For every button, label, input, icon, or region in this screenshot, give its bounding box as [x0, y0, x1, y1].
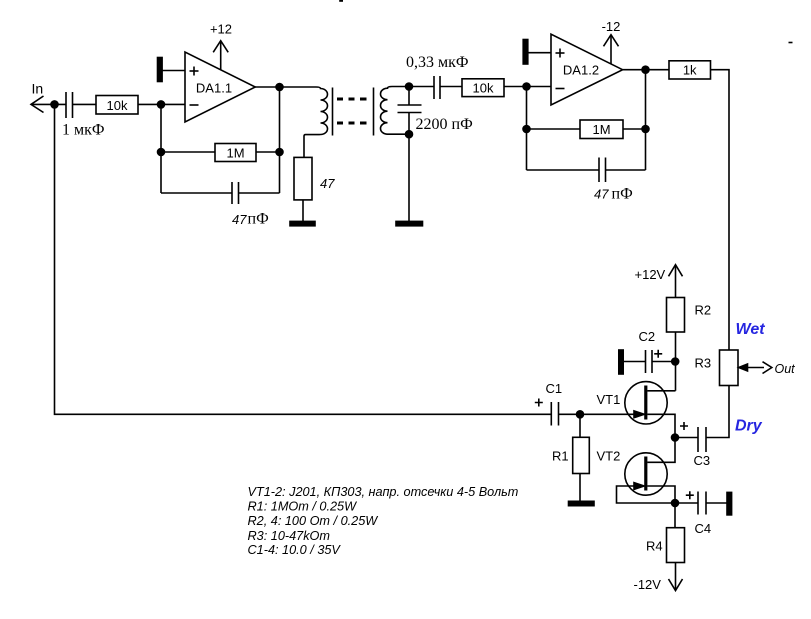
wire to 1M	[161, 151, 215, 153]
transformer T1 primary winding	[304, 87, 328, 157]
capacitor 0,33uF plates	[433, 76, 435, 99]
wire junction to C4	[675, 502, 698, 504]
stray dash mark top right	[789, 42, 793, 44]
transformer core dashes top row	[337, 98, 367, 101]
resistor 10k (input)	[96, 96, 138, 115]
svg-text:C3: C3	[694, 453, 711, 468]
svg-text:-12V: -12V	[634, 577, 662, 592]
resistor 1M (DA1.1 feedback)	[215, 144, 256, 162]
node 1M2 right dot	[642, 126, 649, 133]
resistor R3 potentiometer	[720, 350, 739, 386]
node junction at inverting input	[158, 101, 165, 108]
wire cap to 10k (second)	[440, 86, 462, 88]
svg-text:In: In	[32, 81, 44, 97]
wire secondary bottom to ground	[408, 134, 410, 221]
svg-text:+12V: +12V	[635, 267, 666, 282]
power +12 arrow	[220, 42, 222, 70]
power -12V arrow	[675, 563, 677, 590]
transistor VT1	[625, 382, 667, 424]
capacitor 47pF (DA1.2) plates	[598, 158, 600, 183]
resistor 1M (DA1.2 feedback)	[580, 120, 623, 139]
ground under R1	[569, 501, 595, 505]
node input junction dot	[51, 101, 58, 108]
polarity + of C1	[535, 399, 543, 407]
wire left rail In to C1	[55, 104, 552, 414]
node DA1.2 output dot	[642, 66, 649, 73]
wire feedback left rail DA1.1	[160, 104, 162, 193]
svg-text:R3: 10-47kOm: R3: 10-47kOm	[248, 529, 331, 543]
svg-text:47: 47	[320, 176, 335, 191]
wire 1M to right rail (DA1.2)	[623, 128, 646, 130]
VT1 drain wire	[647, 390, 675, 392]
resistor R1	[573, 437, 590, 473]
capacitor 1uF input plates	[65, 92, 67, 118]
stray mark top edge	[339, 0, 343, 2]
wire 10k to DA1.2 inverting input	[504, 86, 551, 88]
wire feedback left rail DA1.2	[526, 87, 528, 171]
svg-text:1M: 1M	[226, 146, 244, 161]
node secondary bottom dot	[406, 131, 413, 138]
wire ground to DA1.2 + input	[528, 52, 552, 54]
svg-text:-12: -12	[602, 19, 621, 34]
resistor R2	[667, 298, 685, 333]
VT2 gate loop wire	[617, 486, 676, 503]
wire 10k to DA1.1 inverting input	[138, 103, 185, 105]
resistor 1k	[669, 61, 711, 79]
wire secondary vertical (2200pF branch)	[408, 87, 410, 106]
ground bar at C2	[619, 350, 623, 374]
R3 wiper arrow to Out	[739, 364, 748, 371]
wire 47 to ground	[302, 200, 304, 222]
wire C4 to ground bar	[706, 502, 727, 504]
wire ground to + input	[162, 70, 185, 72]
capacitor 2200pF plates	[398, 104, 422, 106]
svg-text:Dry: Dry	[735, 418, 763, 435]
wire feedback bottom right segment	[239, 192, 280, 194]
svg-text:0,33 мкФ: 0,33 мкФ	[406, 54, 469, 71]
svg-text:пФ: пФ	[248, 211, 269, 228]
ground under secondary	[396, 221, 423, 225]
node C3 junction dot	[672, 434, 679, 441]
wire feedback bottom left segment DA1.2	[527, 169, 600, 171]
capacitor C1 plates	[550, 402, 552, 426]
VT2 gate arrowhead	[634, 483, 644, 490]
power +12V arrow	[675, 266, 677, 298]
node 1M2 left dot	[523, 126, 530, 133]
svg-text:Wet: Wet	[736, 321, 766, 338]
svg-text:R3: R3	[695, 356, 712, 371]
svg-text:R2: R2	[695, 303, 712, 318]
capacitor 47pF (DA1.1) plates	[231, 182, 233, 204]
svg-text:C1-4: 10.0 / 35V: C1-4: 10.0 / 35V	[248, 543, 342, 557]
wire 1M to right rail	[256, 151, 280, 153]
node R1 junction dot	[577, 411, 584, 418]
wire 1k to wet rail	[711, 70, 730, 350]
svg-text:47: 47	[232, 212, 247, 227]
wire feedback bottom right segment DA1.2	[606, 169, 646, 171]
wire R1 to ground	[579, 474, 581, 502]
wire secondary top to junction	[392, 86, 434, 88]
svg-text:C1: C1	[546, 381, 563, 396]
resistor 47 (primary load)	[294, 157, 312, 200]
ground under resistor 47	[290, 221, 315, 225]
ground bar DA1.1 + input	[158, 58, 163, 82]
node 1M left dot	[158, 149, 165, 156]
resistor R4	[667, 528, 685, 563]
svg-text:1M: 1M	[592, 122, 610, 137]
polarity + of C2	[654, 350, 662, 358]
svg-text:2200 пФ: 2200 пФ	[416, 116, 473, 133]
transformer core bar right	[373, 88, 375, 136]
polarity + of C4	[686, 491, 694, 499]
capacitor C2 plates	[645, 350, 647, 373]
svg-text:47: 47	[594, 187, 609, 202]
VT1 source wire	[647, 414, 675, 437]
wire C1 to VT1 gate	[559, 413, 645, 415]
transformer core dashes bottom row	[337, 122, 367, 125]
power -12 arrow	[610, 36, 612, 64]
VT2 source wire	[647, 486, 675, 503]
capacitor C3 plates	[697, 427, 699, 452]
svg-text:пФ: пФ	[612, 186, 633, 203]
wire R3 bottom to dry rail	[706, 386, 729, 438]
svg-text:+12: +12	[210, 22, 232, 37]
node secondary top dot	[406, 83, 413, 90]
wire feedback right rail DA1.1	[279, 87, 281, 193]
ground bar at C4	[727, 492, 732, 515]
VT1 gate arrowhead	[634, 411, 644, 418]
wire DA1.1 output to transformer	[255, 86, 316, 88]
node DA1.2 inverting junction dot	[523, 83, 530, 90]
svg-text:DA1.2: DA1.2	[563, 63, 599, 78]
node C4 junction dot	[672, 500, 679, 507]
svg-text:VT1-2: J201, КП303, напр. отсе: VT1-2: J201, КП303, напр. отсечки 4-5 Во…	[248, 485, 519, 499]
svg-text:1 мкФ: 1 мкФ	[62, 122, 105, 139]
resistor 10k (second)	[462, 79, 504, 97]
VT2 drain wire	[647, 438, 675, 463]
polarity + of C3	[680, 422, 688, 430]
ground bar DA1.2 + input	[523, 40, 528, 65]
wire feedback right rail DA1.2	[645, 70, 647, 170]
wire R2 to C2 junction	[675, 332, 677, 391]
wire junction to R4	[674, 503, 676, 528]
wire C2 to junction	[652, 361, 676, 363]
svg-text:VT2: VT2	[597, 449, 621, 464]
svg-text:R1: R1	[552, 448, 569, 463]
op-amp DA1.2	[551, 34, 623, 105]
wire ground to C2	[623, 361, 646, 363]
svg-text:DA1.1: DA1.1	[196, 81, 232, 96]
wire junction to R1	[579, 414, 581, 437]
transformer T1 secondary winding	[381, 87, 409, 135]
op-amp DA1.1	[185, 52, 255, 122]
svg-text:1k: 1k	[683, 63, 697, 78]
capacitor C4 plates	[697, 492, 699, 515]
svg-text:R1: 1MOm / 0.25W: R1: 1MOm / 0.25W	[248, 500, 358, 514]
svg-text:Out: Out	[775, 362, 796, 376]
wire cap to R 10k	[73, 103, 97, 105]
wire DA1.2 output to 1k	[623, 69, 669, 71]
svg-text:R4: R4	[646, 538, 663, 553]
annotation text block	[248, 485, 519, 557]
node C2 junction dot	[672, 358, 679, 365]
svg-text:R2, 4: 100 Om / 0.25W: R2, 4: 100 Om / 0.25W	[248, 514, 379, 528]
svg-text:10k: 10k	[107, 98, 128, 113]
svg-text:C4: C4	[695, 521, 712, 536]
svg-text:C2: C2	[639, 329, 656, 344]
wire C3 to VT junction	[675, 437, 698, 439]
wire to 1M (DA1.2)	[527, 128, 581, 130]
wire In to C1in	[31, 103, 66, 105]
svg-text:VT1: VT1	[597, 392, 621, 407]
transformer core bar left	[332, 88, 334, 136]
node DA1.1 output dot	[276, 84, 283, 91]
svg-text:10k: 10k	[473, 80, 494, 95]
wire feedback bottom left segment	[161, 192, 232, 194]
transistor VT2	[625, 453, 667, 495]
input arrow In	[31, 96, 44, 113]
node 1M right dot	[276, 149, 283, 156]
